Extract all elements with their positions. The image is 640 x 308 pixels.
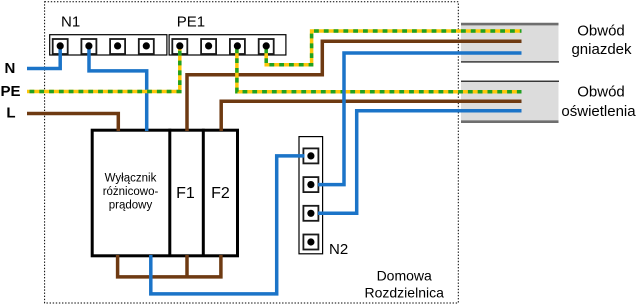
wire: PE feed from label to PE1 terminal 1 (yellow-green) [27,46,180,92]
terminal dots N1 [57,42,150,49]
svg-text:N: N [5,60,16,77]
svg-text:Obwód: Obwód [577,22,625,39]
wire: F1 output to Obwod gniazdek (brown) [187,41,522,131]
svg-text:PE1: PE1 [177,14,205,31]
wire: N feed from label to N1 terminal 1 (blue) [27,46,60,69]
wire: brown branch junction up into F1 bottom [185,255,189,277]
wire: N2 terminal 2 to Obwod gniazdek (blue) [318,53,522,185]
label circuit: Obwod oswietlenia [561,84,636,120]
cable sheath: Obwod oswietlenia [461,81,559,122]
svg-text:różnicowo-: różnicowo- [103,186,159,198]
svg-text:Wyłącznik: Wyłącznik [105,172,157,184]
label: Domowa Rozdzielnica [365,268,445,301]
RCD breaker U1: Wylacznik roznicowo-pradowy with F1 F2 modules [92,129,237,256]
terminal dots PE1 [176,42,270,49]
wire: PE1 terminal 4 to Obwod gniazdek (yellow-green) [266,31,521,65]
wire: N1 terminal 2 to RCD input (blue) [89,46,147,131]
svg-text:prądowy: prądowy [109,200,153,212]
terminal strip N2 [299,137,323,254]
label RCD: Wylacznik roznicowo-pradowy [103,172,159,211]
enclosure: Domowa Rozdzielnica (dotted border) [45,2,459,303]
svg-text:Rozdzielnica: Rozdzielnica [365,285,445,301]
svg-text:N1: N1 [61,14,80,31]
svg-text:Domowa: Domowa [377,268,432,284]
terminal dots N2 [307,152,314,245]
wire: F2 output to Obwod oswietlenia (brown) [221,101,521,131]
wire: L feed from label to RCD input (brown) [27,114,118,132]
svg-text:F1: F1 [176,185,195,202]
terminal strip N1 [50,35,167,55]
wire: RCD output N to N2 terminal 1 (blue) [151,156,305,294]
svg-text:oświetlenia: oświetlenia [561,103,636,120]
svg-text:PE: PE [1,83,21,100]
label circuit: Obwod gniazdek [571,22,632,58]
svg-text:N2: N2 [329,241,348,258]
svg-text:Obwód: Obwód [577,84,625,101]
terminal strip PE1 [169,35,286,55]
svg-text:gniazdek: gniazdek [571,41,632,58]
wire: RCD output L bottom bus to F1 and F2 (brown) [118,255,221,277]
svg-text:L: L [6,105,15,122]
svg-text:F2: F2 [211,185,230,202]
wire: N2 terminal 3 to Obwod oswietlenia (blue) [318,111,522,214]
wire: PE1 terminal 3 to Obwod oswietlenia (yellow-green) [237,46,522,92]
cable sheath: Obwod gniazdek [461,24,559,62]
